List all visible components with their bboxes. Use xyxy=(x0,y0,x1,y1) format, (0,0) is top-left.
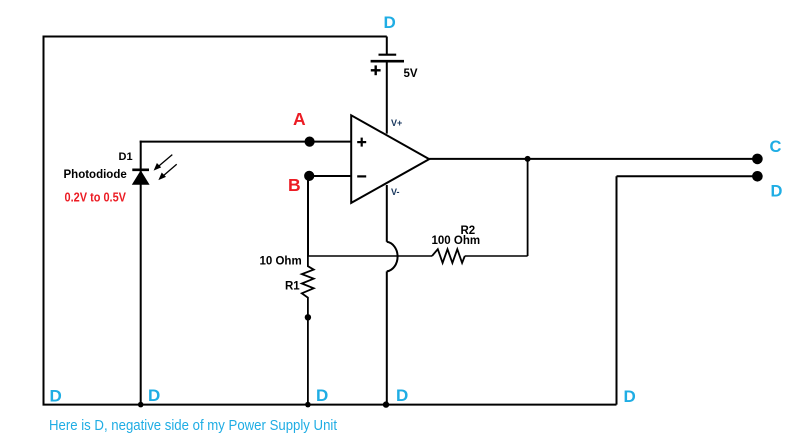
wire V- vertical upper xyxy=(386,185,388,242)
wire B vertical xyxy=(307,176,309,256)
junction output to R2 branch xyxy=(525,156,531,162)
node C xyxy=(752,154,763,165)
node A xyxy=(305,137,315,147)
wire V- vertical lower xyxy=(386,271,388,404)
junction V- / bottom rail xyxy=(383,401,389,407)
junction photodiode / bottom rail xyxy=(138,402,144,408)
wire output xyxy=(429,158,757,160)
wire battery bottom lead xyxy=(386,61,388,133)
svg-text:Photodiode: Photodiode xyxy=(64,169,127,181)
junction R1 / bottom rail xyxy=(305,402,311,408)
junction below R1 xyxy=(305,314,311,320)
svg-text:D: D xyxy=(771,183,783,201)
wire R2 branch vertical xyxy=(527,159,529,256)
svg-text:0.2V to 0.5V: 0.2V to 0.5V xyxy=(65,191,127,205)
wire hop over mid wire xyxy=(387,242,398,272)
wire inverting input xyxy=(308,175,351,177)
wire D output horizontal xyxy=(617,175,758,177)
resistor R2 xyxy=(432,249,465,263)
wire photodiode vertical xyxy=(140,141,142,405)
wire bottom rail xyxy=(43,404,617,406)
svg-text:D: D xyxy=(316,386,328,405)
wire right vertical xyxy=(616,176,618,404)
svg-text:10 Ohm: 10 Ohm xyxy=(260,256,302,268)
svg-text:Here is D, negative side of my: Here is D, negative side of my Power Sup… xyxy=(49,417,338,434)
wire top rail xyxy=(43,36,387,38)
wire mid horizontal left segment xyxy=(308,255,432,257)
wire mid horizontal right segment xyxy=(465,255,528,257)
svg-text:D: D xyxy=(624,387,636,406)
svg-text:5V: 5V xyxy=(404,68,418,80)
svg-text:D: D xyxy=(148,386,160,405)
photodiode light arrow 2 xyxy=(158,164,176,180)
node B xyxy=(304,171,314,181)
svg-text:A: A xyxy=(293,109,306,129)
photodiode light arrow 1 xyxy=(154,155,173,171)
svg-text:D: D xyxy=(396,386,408,405)
resistor R1 xyxy=(302,256,314,405)
battery 5V xyxy=(371,55,404,75)
op-amp U1 xyxy=(351,115,429,203)
svg-text:100 Ohm: 100 Ohm xyxy=(432,235,481,247)
photodiode D1 xyxy=(132,170,149,184)
svg-text:V-: V- xyxy=(391,187,400,197)
svg-text:V+: V+ xyxy=(391,118,402,128)
svg-text:R1: R1 xyxy=(285,281,300,293)
svg-text:D1: D1 xyxy=(119,151,133,163)
svg-text:C: C xyxy=(770,138,782,156)
wire left rail xyxy=(43,36,45,405)
node D right xyxy=(752,171,763,182)
wire noninverting input xyxy=(140,141,352,143)
svg-text:D: D xyxy=(384,13,396,32)
svg-text:D: D xyxy=(50,387,62,406)
wire battery top lead xyxy=(386,37,388,55)
svg-text:B: B xyxy=(288,175,301,195)
